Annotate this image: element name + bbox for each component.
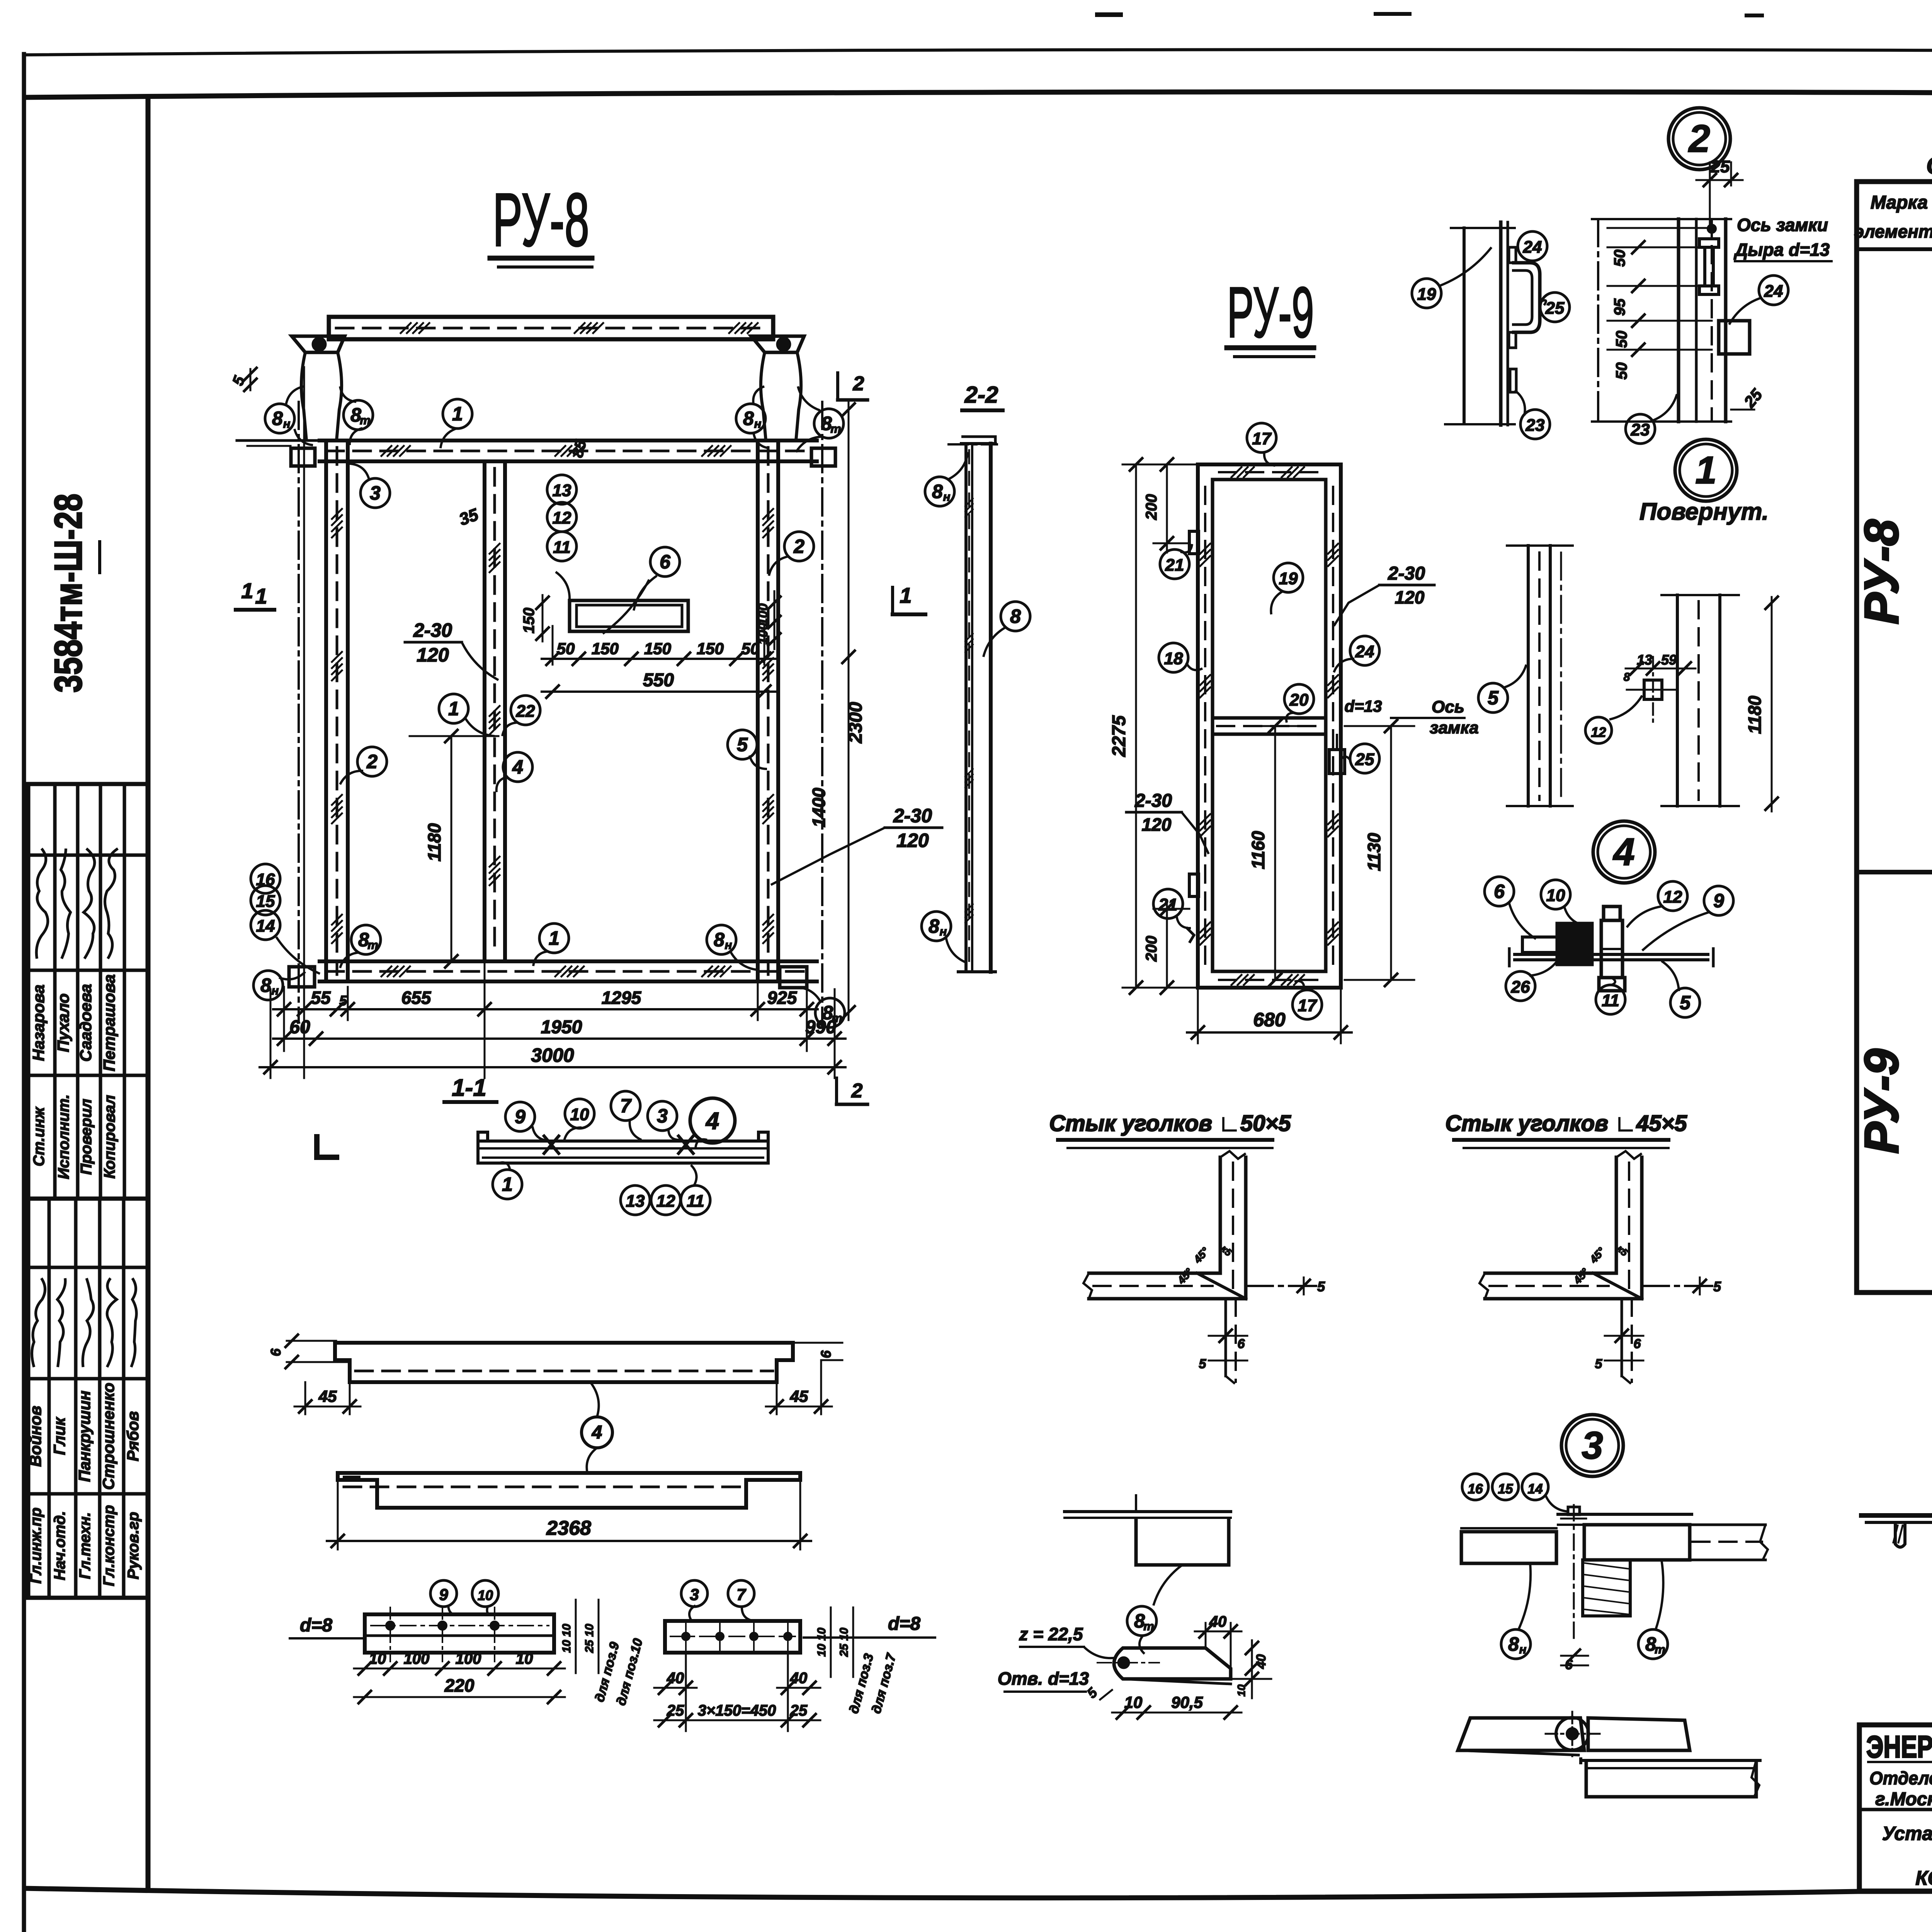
svg-text:5: 5: [1488, 687, 1499, 709]
svg-text:50: 50: [1611, 250, 1628, 267]
angle symbol L: [317, 1134, 339, 1157]
section 1-1 thin bar: [478, 1139, 768, 1143]
РУ-9 hinge bottom поз.21: [1189, 874, 1199, 896]
РУ-9 door frame inner: [1213, 480, 1326, 971]
svg-text:9: 9: [515, 1106, 526, 1128]
detail 3 plate bolt: [1556, 1718, 1588, 1750]
detail 4 circles above: [1485, 877, 1514, 906]
РУ-9 position circle 24: [1350, 636, 1379, 665]
dim 1180 column: [1771, 597, 1773, 811]
РУ-8 bottom dimension row 1: 55 5 655 1295 925: [303, 367, 305, 1078]
detail 3 right continuation: [1690, 1524, 1765, 1526]
bar поз.4 top view: [335, 1343, 793, 1382]
8т plate circle: [1127, 1606, 1156, 1636]
РУ-8 right dimension 2300: [848, 400, 850, 1020]
РУ-8 position circle 5: [728, 730, 757, 759]
svg-text:1: 1: [1695, 449, 1717, 492]
svg-text:120: 120: [896, 830, 929, 851]
svg-text:5: 5: [339, 993, 347, 1009]
svg-text:Пухало: Пухало: [54, 993, 72, 1052]
handle circles: [1518, 231, 1547, 261]
svg-text:1: 1: [549, 927, 560, 949]
svg-text:12: 12: [1591, 725, 1606, 740]
svg-text:10 10: 10 10: [560, 1624, 573, 1653]
border left line: [22, 54, 26, 1932]
detail circle 3: [1561, 1415, 1623, 1476]
svg-text:12: 12: [1663, 888, 1682, 906]
svg-text:10: 10: [1546, 886, 1565, 905]
РУ-8 top channel left clip 8н: [292, 336, 345, 352]
signature stamp block 1: [28, 784, 148, 1199]
svg-text:150: 150: [592, 639, 619, 658]
svg-text:4: 4: [1612, 830, 1635, 874]
svg-text:н: н: [725, 938, 732, 952]
svg-text:19: 19: [1417, 285, 1436, 304]
plate поз.9-10 circles: [430, 1580, 457, 1607]
svg-text:2-30: 2-30: [893, 805, 932, 827]
svg-text:5: 5: [1317, 1279, 1325, 1294]
bar поз.4 bottom view: [338, 1473, 800, 1508]
window vertical dim 150 left: [542, 595, 544, 641]
svg-text:Установка синхронных: Установка синхронных: [1882, 1823, 1932, 1844]
РУ-9 position circle 25: [1350, 744, 1379, 773]
plate поз.9-10 dims below: [354, 1668, 565, 1670]
sidebar divider line: [146, 97, 151, 1888]
detail 12 member: [1676, 595, 1679, 806]
svg-text:40: 40: [667, 1670, 684, 1687]
svg-text:Спецификация стали на один: Спецификация стали на один стальнoй эл: [1926, 152, 1932, 179]
detail 2 circle 24: [1759, 276, 1788, 305]
svg-text:2-30: 2-30: [1388, 563, 1425, 584]
РУ-9 position circle 21 top: [1160, 549, 1189, 579]
detail 3 right bar: [1584, 1525, 1690, 1560]
svg-text:т: т: [360, 413, 371, 427]
svg-text:н: н: [283, 417, 291, 430]
svg-text:45: 45: [790, 1387, 808, 1405]
svg-text:17: 17: [1252, 429, 1272, 448]
detail 3 bottom channel: [1586, 1760, 1756, 1797]
svg-text:16: 16: [1468, 1481, 1483, 1497]
svg-text:680: 680: [1253, 1009, 1286, 1031]
svg-text:2-30: 2-30: [1134, 791, 1172, 811]
8т bracket top view: [1065, 1510, 1231, 1513]
spec table section divider: [1857, 870, 1932, 874]
svg-text:20: 20: [1289, 690, 1309, 709]
plate поз.9-10 right rotated dims: [575, 1600, 577, 1673]
svg-text:8: 8: [1508, 1633, 1519, 1655]
РУ-8 position circles top: [265, 404, 294, 433]
РУ-9 hinge top поз.21: [1189, 531, 1199, 554]
svg-text:6: 6: [1238, 1337, 1245, 1351]
inner border top line: [24, 92, 1932, 97]
svg-text:24: 24: [1523, 238, 1542, 257]
РУ-9 dim 680 bottom: [1197, 988, 1199, 1043]
svg-text:2-30: 2-30: [413, 619, 452, 641]
svg-text:8: 8: [714, 929, 724, 951]
section 2-2 member: [964, 444, 968, 972]
svg-text:1400: 1400: [809, 787, 829, 827]
svg-text:120: 120: [1142, 815, 1172, 835]
svg-text:10: 10: [369, 1650, 386, 1667]
РУ-9 dim 2275 left: [1135, 464, 1137, 988]
section 1-1 weld marks: [544, 1136, 559, 1153]
svg-text:8: 8: [932, 481, 943, 502]
svg-text:Исполнит.: Исполнит.: [55, 1094, 72, 1179]
svg-text:г.Москва: г.Москва: [1875, 1789, 1932, 1810]
svg-text:н: н: [943, 490, 951, 503]
svg-text:т: т: [1143, 1619, 1154, 1633]
svg-text:60: 60: [289, 1017, 310, 1037]
plate поз.3-7 outline: [665, 1621, 800, 1653]
svg-text:9: 9: [439, 1585, 448, 1604]
outer border top line: [24, 49, 1932, 55]
detail circle 2: [1668, 108, 1730, 170]
svg-text:50: 50: [1613, 362, 1630, 380]
svg-text:17: 17: [1298, 996, 1318, 1015]
svg-text:н: н: [1519, 1643, 1527, 1656]
detail 3 centerline and bolt: [1573, 1505, 1575, 1642]
svg-text:3×150=450: 3×150=450: [698, 1702, 776, 1719]
plate поз.9-10 outline: [365, 1614, 554, 1653]
svg-text:100: 100: [756, 623, 770, 645]
svg-text:19: 19: [1279, 569, 1298, 588]
svg-text:Ось: Ось: [1432, 697, 1464, 716]
svg-text:Отделение Дальних Передач: Отделение Дальних Передач: [1869, 1768, 1932, 1788]
РУ-9 position circle 17 top: [1247, 423, 1276, 452]
svg-text:23: 23: [1526, 416, 1545, 435]
РУ-8 inner dimension 1180: [451, 736, 452, 961]
window dimension 550: [542, 690, 775, 693]
РУ-8 position circles 16 15 14: [251, 864, 280, 893]
svg-text:Глик: Глик: [50, 1417, 68, 1455]
svg-text:5: 5: [1713, 1279, 1721, 1294]
detail 3 vertical hatched strip: [1583, 1560, 1630, 1616]
svg-text:22: 22: [516, 702, 535, 721]
tee profile symbol: [1861, 1513, 1932, 1518]
svg-text:11: 11: [553, 538, 571, 557]
svg-text:н: н: [940, 925, 947, 938]
svg-text:Саадоева: Саадоева: [77, 984, 95, 1061]
svg-text:3: 3: [657, 1105, 668, 1127]
detail 12 dims: [1626, 668, 1696, 670]
section 1-1 circles below: [493, 1170, 522, 1199]
svg-text:2368: 2368: [546, 1517, 591, 1539]
detail 2 lock keeper: [1699, 239, 1719, 247]
svg-text:100: 100: [404, 1650, 430, 1667]
clip leader lines: [286, 386, 304, 405]
svg-text:12: 12: [656, 1192, 675, 1211]
svg-text:5: 5: [1680, 992, 1691, 1014]
detail 3 top thin bar: [1558, 1513, 1692, 1516]
svg-text:25: 25: [1711, 157, 1730, 176]
svg-text:1180: 1180: [1745, 696, 1765, 734]
svg-text:Гл.констр: Гл.констр: [100, 1505, 117, 1586]
РУ-9 dim 200 top-left: [1166, 464, 1168, 553]
РУ-9 middle rail поз.20: [1213, 716, 1326, 720]
svg-text:3584тм-Ш-28: 3584тм-Ш-28: [47, 494, 90, 693]
РУ-8 corner clip top-right: [811, 448, 835, 466]
svg-text:т: т: [1655, 1643, 1665, 1656]
section 2-2 circle 8н bottom: [922, 912, 951, 941]
svg-text:1950: 1950: [541, 1017, 582, 1037]
svg-text:Дыра d=13: Дыра d=13: [1733, 240, 1830, 260]
svg-text:1: 1: [452, 403, 463, 425]
window dimension line 50-150-150-150-50: [552, 626, 554, 665]
svg-text:24: 24: [1764, 282, 1783, 301]
dimension 2368: [337, 1480, 339, 1549]
svg-text:12: 12: [553, 509, 571, 527]
РУ-8 top channel bar поз.2: [329, 315, 773, 319]
detail 4 bolt: [1601, 920, 1622, 978]
svg-text:2-2: 2-2: [964, 382, 998, 408]
svg-text:Нач.отд.: Нач.отд.: [51, 1511, 68, 1580]
svg-text:200: 200: [1143, 936, 1160, 962]
svg-text:РУ-9: РУ-9: [1227, 273, 1314, 352]
svg-text:7: 7: [620, 1095, 632, 1117]
handle hinge pads: [1509, 247, 1516, 263]
svg-text:11: 11: [687, 1192, 704, 1211]
svg-text:2300: 2300: [845, 702, 866, 743]
svg-text:55: 55: [311, 988, 331, 1008]
bar поз.4 left end dims: [287, 1340, 336, 1342]
bar поз.4 right end dims: [776, 1382, 778, 1414]
svg-text:25: 25: [667, 1702, 684, 1719]
svg-text:2: 2: [851, 1080, 863, 1102]
svg-text:Стык уголков ∟50×5: Стык уголков ∟50×5: [1049, 1111, 1291, 1136]
svg-text:1-1: 1-1: [452, 1075, 486, 1101]
detail 3 dim 6: [1561, 1655, 1588, 1657]
plate поз.3-7 holes: [682, 1633, 689, 1640]
svg-text:1180: 1180: [424, 823, 444, 861]
РУ-8 middle stile поз.4: [483, 461, 486, 961]
svg-text:40: 40: [790, 1670, 808, 1687]
svg-text:14: 14: [1528, 1481, 1543, 1497]
plate поз.3-7 dims below: [685, 1653, 687, 1731]
detail 4 block left: [1557, 923, 1592, 964]
svg-text:3: 3: [370, 482, 381, 504]
svg-text:н: н: [754, 417, 762, 430]
plate поз.3-7 circles: [681, 1580, 707, 1607]
detail 3 circles 8н 8т: [1501, 1629, 1531, 1659]
svg-text:Войнов: Войнов: [26, 1406, 44, 1467]
svg-text:Проверил: Проверил: [78, 1099, 95, 1175]
РУ-8 position circles 13 12 11: [547, 475, 577, 504]
svg-text:11: 11: [1602, 991, 1619, 1010]
svg-text:10: 10: [1235, 1684, 1247, 1697]
svg-text:1160: 1160: [1248, 831, 1268, 869]
РУ-8 top channel right clip 8т: [751, 336, 804, 352]
svg-text:4: 4: [705, 1108, 719, 1134]
detail circle 4: [1593, 821, 1655, 883]
window vertical dim 100 100 right: [774, 591, 776, 649]
8т plate dims: [1205, 1623, 1207, 1648]
svg-text:Ст.инж: Ст.инж: [31, 1106, 48, 1167]
svg-text:Рябов: Рябов: [124, 1411, 142, 1461]
svg-text:25: 25: [1355, 750, 1374, 769]
РУ-8 corner clip bottom-left: [289, 967, 315, 987]
svg-text:90,5: 90,5: [1171, 1693, 1203, 1711]
detail 3 circles 16 15 14: [1462, 1474, 1488, 1500]
hatch ticks РУ-8 members: [332, 509, 342, 519]
svg-text:13: 13: [1637, 652, 1652, 668]
РУ-8 position circle 2 left: [357, 747, 387, 776]
svg-text:15: 15: [256, 892, 275, 911]
РУ-9 lock поз.25: [1329, 750, 1345, 774]
svg-text:6: 6: [1494, 881, 1505, 902]
detail circle 1: [1675, 439, 1737, 501]
svg-text:1: 1: [255, 584, 267, 608]
svg-text:6: 6: [660, 551, 671, 573]
svg-text:8: 8: [743, 408, 754, 429]
РУ-8 frame bottom rail поз.1: [320, 959, 817, 963]
svg-text:7: 7: [736, 1585, 746, 1604]
РУ-8 left stile поз.2: [324, 440, 328, 981]
hatch ticks РУ-9 members: [1200, 544, 1210, 554]
inner border bottom line: [24, 1888, 1932, 1898]
svg-text:Отв. d=13: Отв. d=13: [998, 1668, 1089, 1689]
svg-text:1: 1: [502, 1173, 513, 1195]
svg-text:РУ-9: РУ-9: [1855, 1049, 1908, 1154]
РУ-9 position circle 17 bottom: [1293, 990, 1322, 1019]
bar поз.4 circle leader: [582, 1417, 612, 1448]
РУ-9 position circle 21 bottom: [1153, 889, 1183, 918]
svg-text:24: 24: [1355, 642, 1374, 661]
svg-text:45: 45: [318, 1387, 337, 1405]
РУ-9 dim 1160 center: [1274, 726, 1276, 980]
svg-text:8: 8: [1624, 671, 1630, 684]
spec table frame: [1857, 182, 1932, 1293]
detail 2 horizontal dim lines: [1607, 247, 1712, 248]
svg-text:10: 10: [570, 1105, 589, 1124]
svg-text:3: 3: [1582, 1424, 1603, 1467]
svg-text:59: 59: [1661, 652, 1677, 668]
detail 2 lock body: [1719, 321, 1750, 354]
svg-text:150: 150: [697, 639, 724, 658]
svg-text:РУ-8: РУ-8: [1855, 519, 1908, 624]
svg-text:Строшненко: Строшненко: [99, 1383, 117, 1490]
РУ-8 bottom position circles: [351, 925, 381, 954]
svg-text:1: 1: [448, 698, 459, 719]
svg-text:50: 50: [557, 639, 575, 658]
РУ-9 position circle 18: [1159, 643, 1188, 672]
detail 5 vertical member: [1527, 546, 1530, 806]
svg-text:1: 1: [900, 583, 912, 607]
svg-text:Назарова: Назарова: [29, 985, 48, 1061]
section 1-1 circles above: [505, 1102, 535, 1131]
svg-text:925: 925: [767, 988, 798, 1008]
РУ-8 swing axis dash-dot left: [298, 402, 300, 1020]
svg-text:2275: 2275: [1109, 715, 1129, 757]
svg-text:замка: замка: [1430, 718, 1479, 737]
detail 3 bottom plates: [1458, 1718, 1584, 1750]
svg-text:50: 50: [1613, 331, 1630, 348]
РУ-8 position circles 1 22 mid: [439, 694, 468, 723]
svg-text:КСВБ-50- 4141: КСВБ-50- 4141: [1915, 1867, 1932, 1889]
section 2-2 circle 8: [1001, 602, 1030, 631]
РУ-8 position circle 6: [650, 547, 680, 577]
svg-text:25: 25: [1545, 299, 1565, 318]
svg-text:25: 25: [790, 1702, 808, 1719]
svg-text:d=13: d=13: [1345, 697, 1382, 715]
svg-text:6: 6: [1634, 1337, 1641, 1351]
svg-text:2: 2: [1688, 117, 1710, 160]
8т plate with hole: [1114, 1648, 1231, 1679]
svg-text:8: 8: [1010, 605, 1021, 627]
svg-text:2: 2: [366, 751, 378, 772]
detail 4 assembly plate: [1515, 953, 1708, 956]
title block frame: [1859, 1725, 1932, 1891]
svg-text:6: 6: [268, 1348, 284, 1356]
svg-text:Марка: Марка: [1871, 192, 1928, 213]
svg-text:25 10: 25 10: [838, 1628, 850, 1657]
svg-text:Повернут.: Повернут.: [1639, 498, 1769, 525]
svg-text:z = 22,5: z = 22,5: [1019, 1624, 1083, 1644]
svg-text:5: 5: [1595, 1357, 1603, 1371]
svg-text:120: 120: [417, 644, 449, 666]
handle поз.25: [1512, 263, 1540, 332]
РУ-8 right stile поз.5: [756, 440, 760, 981]
handle detail member: [1463, 228, 1466, 423]
svg-text:10: 10: [516, 1650, 533, 1667]
svg-text:150: 150: [520, 608, 537, 634]
svg-text:10: 10: [1124, 1693, 1143, 1711]
detail 4 circles below: [1506, 971, 1535, 1001]
svg-text:13: 13: [553, 481, 571, 500]
detail 5 dash-dot axis: [1560, 553, 1562, 800]
svg-text:4: 4: [592, 1422, 602, 1443]
svg-text:т: т: [367, 938, 378, 952]
svg-text:Стык уголков ∟45×5: Стык уголков ∟45×5: [1445, 1111, 1687, 1136]
plate поз.3-7 rotated dims right: [830, 1607, 832, 1677]
svg-text:1295: 1295: [602, 988, 642, 1008]
svg-text:5: 5: [737, 734, 748, 755]
svg-text:d=8: d=8: [300, 1615, 332, 1636]
РУ-8 swing axis dash-dot right: [821, 402, 823, 1028]
svg-text:120: 120: [1395, 587, 1425, 607]
title block row lines: [1859, 1808, 1932, 1811]
svg-text:ЭНЕРГОСЕТЬПРОЕКТ: ЭНЕРГОСЕТЬПРОЕКТ: [1866, 1730, 1932, 1764]
svg-text:8: 8: [929, 915, 939, 937]
РУ-8 frame top rail поз.1: [320, 439, 817, 442]
svg-text:6: 6: [818, 1350, 834, 1358]
detail 2 drawing: [1597, 219, 1599, 422]
РУ-9 frame dashes: [1204, 487, 1206, 966]
detail 2 circle 23: [1626, 414, 1655, 444]
РУ-8 position circle 2 right: [784, 532, 814, 561]
svg-text:Ось замки: Ось замки: [1737, 215, 1828, 235]
РУ-8 bottom dimension row 2: 60 1950 990: [283, 987, 285, 1051]
svg-text:Копировал: Копировал: [101, 1095, 118, 1179]
svg-text:3: 3: [690, 1585, 699, 1604]
signature stamp block 2: [28, 1199, 148, 1598]
svg-text:Панкрушин: Панкрушин: [75, 1391, 94, 1482]
svg-text:d=8: d=8: [888, 1614, 920, 1634]
svg-text:25 10: 25 10: [583, 1624, 596, 1653]
svg-text:1130: 1130: [1364, 833, 1384, 871]
svg-text:2: 2: [793, 536, 804, 557]
РУ-8 position circle 3: [361, 478, 390, 508]
svg-text:9: 9: [1713, 890, 1724, 912]
detail 5 circle: [1478, 683, 1508, 713]
window leader arrows from поз.11: [556, 572, 570, 600]
svg-text:95: 95: [1611, 298, 1628, 316]
svg-text:655: 655: [401, 988, 432, 1008]
section 2-2 circle 8н top: [925, 477, 954, 506]
top fold marks: [1097, 12, 1121, 17]
svg-text:1: 1: [241, 578, 253, 603]
svg-text:13: 13: [626, 1192, 645, 1211]
РУ-8 corner clip top-left: [291, 448, 315, 466]
